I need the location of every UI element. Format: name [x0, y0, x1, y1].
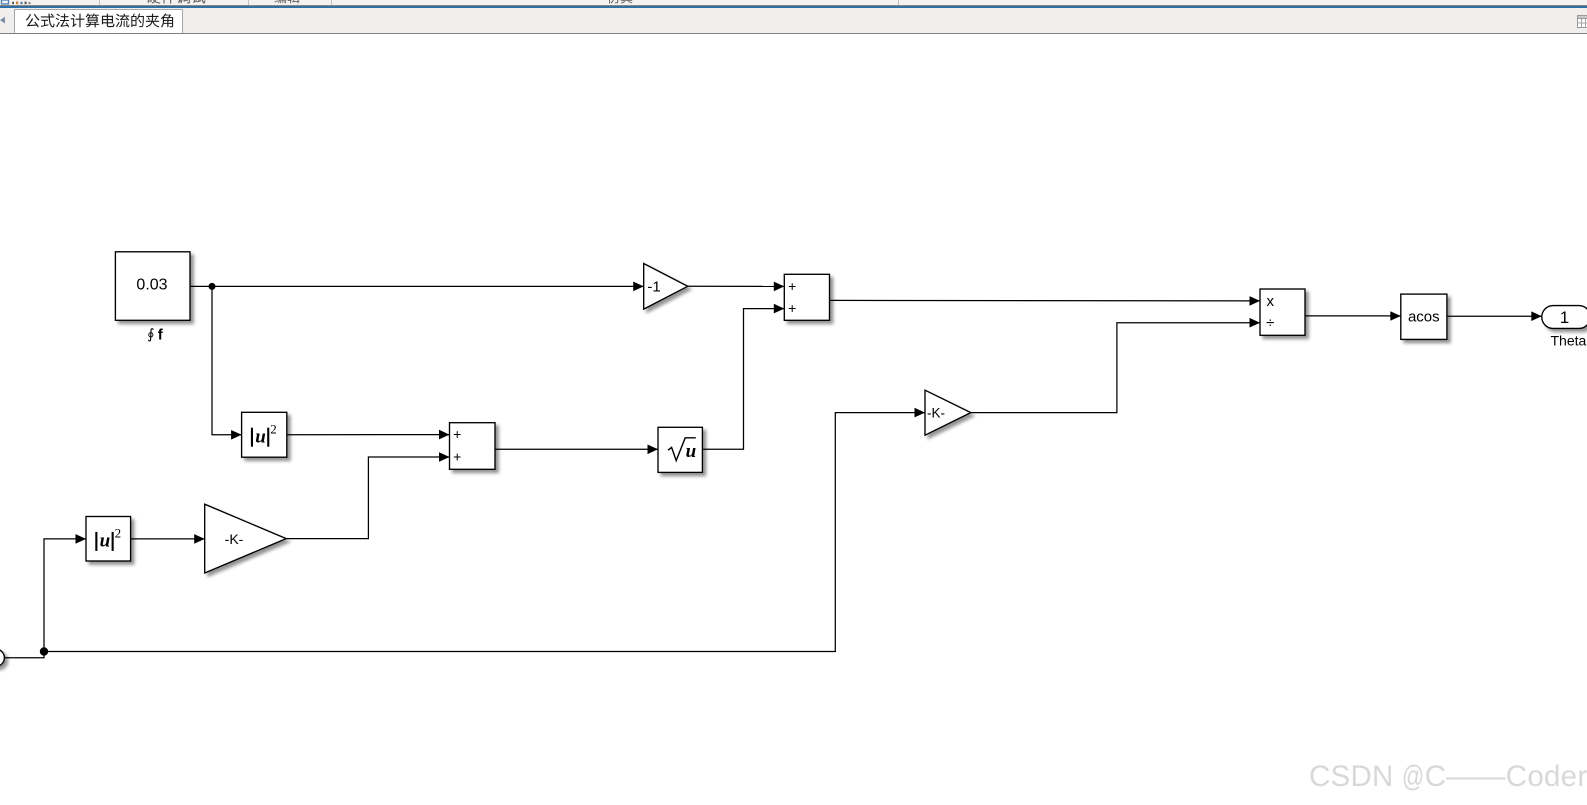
sqrt block [658, 427, 702, 472]
gain block -K- (large) [205, 504, 287, 573]
sum block Add2 [784, 274, 829, 320]
wire branch up to Math Function2 [44, 539, 86, 652]
wire Math Function2 to Gain3 [131, 538, 205, 540]
svg-text:-1: -1 [647, 279, 660, 296]
svg-text:u: u [100, 531, 111, 552]
svg-text:+: + [453, 426, 461, 442]
arrowhead into Divide in1 [1250, 296, 1261, 306]
wire Divide to acos [1305, 315, 1401, 317]
label of constant block: integral f [148, 327, 164, 344]
arrowhead into acos [1390, 311, 1401, 321]
wire Math Function1 to Add1 in1 [287, 434, 450, 436]
arrowhead into Add1 in1 [439, 430, 450, 440]
blue accent bar [0, 6, 1587, 8]
svg-text:+: + [453, 448, 461, 464]
gain block -1 [644, 264, 688, 310]
svg-text:÷: ÷ [1266, 315, 1274, 332]
model tab title: 公式法计算电流的夹角 [0, 0, 200, 34]
wire Gain3 to Add1 in2 [286, 457, 449, 539]
wire acos to Outport [1447, 315, 1542, 317]
svg-text:2: 2 [115, 526, 122, 541]
inport circle (clipped at left edge) [0, 649, 4, 666]
separator line above blue bar [0, 5, 1587, 6]
arrowhead into Gain3 [194, 534, 205, 544]
arrowhead into Add2 in2 [774, 304, 785, 314]
wire Sqrt to Add2 in2 [702, 309, 784, 450]
cut-off quick-access toolbar icons [2, 0, 31, 4]
svg-text:-K-: -K- [225, 531, 244, 547]
svg-text:f: f [158, 327, 164, 344]
wire Gain2 to Divide in2 [971, 323, 1260, 413]
arrowhead into Gain1 [633, 282, 644, 292]
svg-text:Theta: Theta [1550, 332, 1586, 348]
math function block |u|^2 (upper) [242, 412, 287, 457]
arrowhead into Sqrt [648, 445, 659, 455]
outport block 1 (Theta) [1542, 306, 1587, 329]
wire branch down to Math Function1 [212, 286, 242, 434]
svg-text:0.03: 0.03 [136, 277, 167, 294]
junction node on input rail [40, 647, 48, 655]
arrowhead into Gain2 [915, 408, 926, 418]
gain block -K- (small) [925, 390, 971, 435]
arrowhead into Divide in2 [1250, 318, 1261, 328]
tab scroll arrow [0, 16, 10, 28]
svg-text:u: u [686, 441, 697, 462]
wire Add1 to Sqrt [495, 448, 658, 450]
svg-text:x: x [1267, 293, 1275, 310]
divide block [1260, 289, 1305, 335]
wire rail to Gain2 [44, 413, 925, 652]
toolstrip sliver (cut-off ribbon bottom) [0, 0, 1587, 5]
watermark [1309, 762, 1587, 792]
arrowhead into Math Function1 [231, 430, 242, 440]
sum block Add1 [450, 423, 496, 470]
constant block 0.03 [115, 252, 190, 320]
wire Add2 to Divide in1 [830, 299, 1261, 302]
svg-text:acos: acos [1408, 308, 1440, 325]
svg-text:+: + [788, 300, 796, 316]
arrowhead into Add1 in2 [439, 452, 450, 462]
arrowhead into Math Function2 [76, 534, 87, 544]
document tab bar [0, 8, 1587, 34]
cut-off ribbon tab labels [146, 0, 632, 4]
svg-text:u: u [255, 426, 266, 447]
wire Inport to junction [4, 652, 44, 658]
math function block |u|^2 (lower) [86, 517, 131, 562]
svg-text:2: 2 [270, 421, 277, 436]
arrowhead into Outport [1531, 311, 1542, 321]
arrowhead into Add2 in1 [774, 282, 785, 292]
svg-text:-K-: -K- [927, 405, 945, 420]
trigonometric function block acos [1401, 294, 1447, 339]
junction node after Constant [209, 283, 216, 290]
wire Constant to Gain1 [190, 285, 644, 287]
panel icon at right of tab bar [1577, 15, 1587, 31]
svg-text:+: + [788, 278, 796, 294]
svg-text:1: 1 [1560, 308, 1569, 327]
wire Gain1 to Add2 in1 [688, 285, 785, 287]
